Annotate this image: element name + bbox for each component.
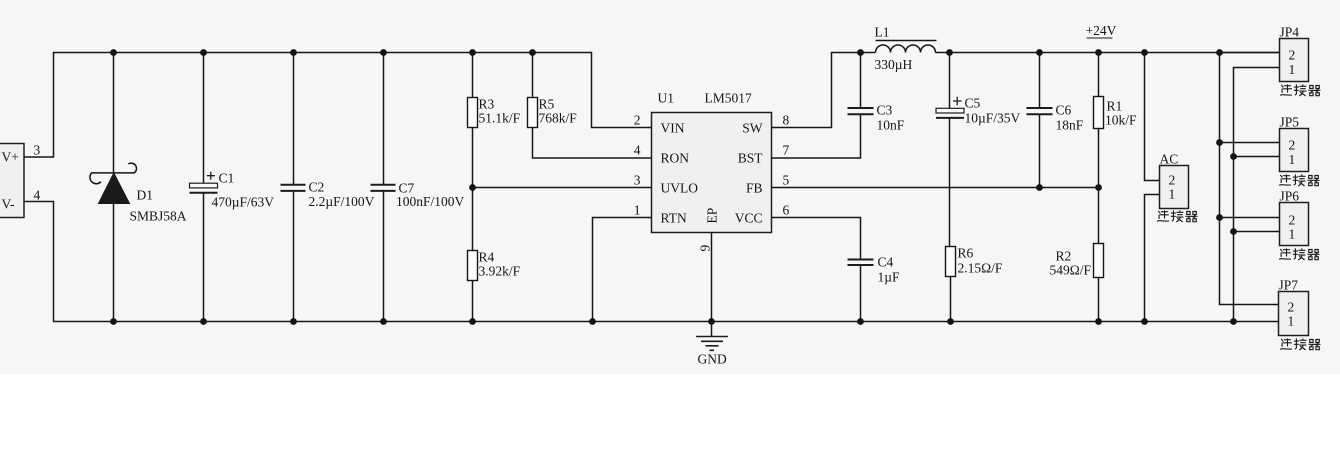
svg-text:1: 1 [1169,187,1176,202]
junction C6 FB [1036,184,1043,191]
svg-text:2: 2 [1289,138,1296,153]
svg-text:JP4: JP4 [1280,25,1300,40]
capacitor C6 [1027,53,1084,188]
svg-text:549Ω/F: 549Ω/F [1050,263,1092,278]
svg-text:R6: R6 [958,246,974,261]
wire JP6 pin2 [1220,217,1280,219]
op-amp U1 LM5017 [652,91,772,233]
svg-text:3: 3 [634,173,641,188]
svg-text:JP6: JP6 [1280,189,1300,204]
connector JP4 [1280,25,1309,82]
junction C2 bottom [290,318,297,325]
inductor L1 330uH [875,25,937,73]
svg-text:10µF/35V: 10µF/35V [965,111,1021,126]
svg-text:R2: R2 [1056,249,1072,264]
svg-text:2.2µF/100V: 2.2µF/100V [309,194,375,209]
svg-text:AC: AC [1160,152,1179,167]
svg-text:4: 4 [634,143,641,158]
junction D1 top [110,49,117,56]
wire FB pin5 of U1 to divider [772,187,1099,189]
capacitor C7 [371,53,465,322]
svg-text:SW: SW [742,121,763,136]
label 连接器 AC [1158,211,1198,222]
svg-text:BST: BST [738,151,764,166]
svg-text:2: 2 [634,113,641,128]
junction R6 bottom [947,318,954,325]
connector JP5 [1280,115,1309,172]
junction L1/C5 [946,49,953,56]
svg-text:2: 2 [1289,213,1296,228]
svg-text:UVLO: UVLO [661,181,699,196]
junction R3 top [469,49,476,56]
svg-text:GND: GND [698,352,727,367]
svg-text:3.92k/F: 3.92k/F [479,264,521,279]
connector JP6 [1280,189,1309,246]
junction C3 top [857,49,864,56]
junction C6 top [1036,49,1043,56]
svg-text:4: 4 [34,188,41,203]
svg-text:JP7: JP7 [1279,278,1299,293]
resistor R6 [946,246,1003,322]
svg-text:LM5017: LM5017 [705,91,753,106]
wire output bus +24V rail [936,52,1280,54]
junction R3/R4 UVLO [469,184,476,191]
resistor R3 [468,53,521,251]
svg-text:JP5: JP5 [1280,115,1300,130]
wire JP6 pin1 [1234,231,1280,233]
label 连接器 JP4 [1281,85,1321,96]
junction C4 bottom [857,318,864,325]
wire JP5 pin1 [1234,156,1280,158]
wire V+ net: pin3 to top bus to VIN pin2 of U1 [24,53,652,158]
junction D1 bottom [110,318,117,325]
connector JP7 [1279,278,1309,336]
junction C7 top [380,49,387,56]
svg-text:R3: R3 [479,97,495,112]
junction R5 top [529,49,536,56]
junction C1 top [200,49,207,56]
junction R1/R2 FB [1095,184,1102,191]
svg-text:L1: L1 [875,25,890,40]
connector P? left input [0,144,24,218]
svg-text:1: 1 [1288,314,1295,329]
junction JP5 pin1 [1230,153,1237,160]
junction JP6 pin2 [1216,214,1223,221]
svg-text:768k/F: 768k/F [539,111,578,126]
svg-text:RTN: RTN [661,211,687,226]
svg-text:V+: V+ [2,150,19,165]
label 连接器 JP5 [1280,175,1320,186]
power +24V [1086,23,1117,38]
junction AC bottom [1141,318,1148,325]
svg-text:FB: FB [746,181,763,196]
capacitor C4 [772,218,901,322]
junction RTN bottom [589,318,596,325]
wire JP4 pin2 (on +24V rail) [1220,52,1280,54]
svg-text:V-: V- [2,197,16,212]
svg-text:VIN: VIN [661,121,685,136]
svg-text:10k/F: 10k/F [1105,113,1137,128]
svg-text:R5: R5 [539,97,555,112]
junction C7 bottom [380,318,387,325]
svg-text:1: 1 [634,203,641,218]
capacitor C1 (electrolytic) [190,53,275,322]
junction C1 bottom [200,318,207,325]
svg-text:100nF/100V: 100nF/100V [396,194,465,209]
svg-text:2: 2 [1288,300,1295,315]
junction R4 bottom [469,318,476,325]
junction JP2 rail [1216,49,1223,56]
svg-text:VCC: VCC [735,211,763,226]
svg-text:R4: R4 [479,250,495,265]
capacitor C5 (electrolytic) [936,53,1021,247]
svg-text:1: 1 [1289,62,1296,77]
connector AC [1160,152,1189,209]
wire JP pin2 bus [1220,53,1279,305]
capacitor C3 [772,53,905,159]
wire RTN pin1 of U1 to bottom bus [593,218,652,322]
svg-text:2: 2 [1289,48,1296,63]
resistor R2 [1050,244,1104,322]
wire JP pin1 bus [1234,68,1280,322]
junction C2 top [290,49,297,56]
svg-text:2.15Ω/F: 2.15Ω/F [958,261,1003,276]
junction JP5 pin2 [1216,139,1223,146]
svg-text:6: 6 [783,203,790,218]
ground symbol GND [696,322,728,367]
wire SW pin8 of U1 up to switch node [772,53,876,128]
resistor R5 [528,53,578,128]
svg-text:470µF/63V: 470µF/63V [212,195,275,210]
svg-text:330µH: 330µH [875,57,913,72]
label 连接器 JP6 [1280,249,1320,260]
wire R5 to RON pin4 of U1 [533,128,652,159]
resistor R4 [468,250,521,322]
svg-text:C5: C5 [965,96,981,111]
svg-text:10nF: 10nF [877,118,905,133]
svg-text:SMBJ58A: SMBJ58A [130,209,187,224]
svg-text:+24V: +24V [1086,23,1117,38]
junction EP/GND [708,318,715,325]
wire AC pin2 to +24V rail [1145,53,1160,181]
wire JP5 pin2 [1220,142,1280,144]
svg-text:D1: D1 [137,188,154,203]
svg-text:18nF: 18nF [1056,118,1084,133]
resistor R1 [1094,53,1138,244]
svg-text:7: 7 [783,143,790,158]
wire AC pin1 to ground bus [1145,195,1160,322]
capacitor C2 [281,53,375,322]
wire UVLO node: R3/R4 to UVLO pin3 of U1 [473,187,652,189]
junction JP6 pin1 [1230,228,1237,235]
junction R2 bottom [1095,318,1102,325]
svg-text:51.1k/F: 51.1k/F [479,111,521,126]
svg-text:EP: EP [705,208,720,224]
svg-text:5: 5 [783,173,790,188]
svg-text:1: 1 [1289,227,1296,242]
svg-text:C3: C3 [877,103,893,118]
svg-text:2: 2 [1169,173,1176,188]
svg-text:1µF: 1µF [878,270,901,285]
svg-text:C6: C6 [1056,103,1072,118]
wire V- net: pin4 down to bottom ground bus [24,202,1279,322]
diode D1 SMBJ58A [90,53,187,322]
svg-text:RON: RON [661,151,690,166]
svg-text:8: 8 [783,113,790,128]
svg-text:C2: C2 [309,180,325,195]
svg-text:C1: C1 [219,171,235,186]
junction JP1 bus bottom [1230,318,1237,325]
svg-text:U1: U1 [658,91,675,106]
junction AC rail [1141,49,1148,56]
svg-text:9: 9 [698,245,713,252]
svg-text:R1: R1 [1107,99,1123,114]
svg-text:3: 3 [34,143,41,158]
junction R1 top [1095,49,1102,56]
svg-text:1: 1 [1289,152,1296,167]
wire EP pin9 of U1 to bottom bus [711,233,713,322]
svg-text:C4: C4 [878,255,894,270]
label 连接器 JP7 [1281,339,1321,350]
